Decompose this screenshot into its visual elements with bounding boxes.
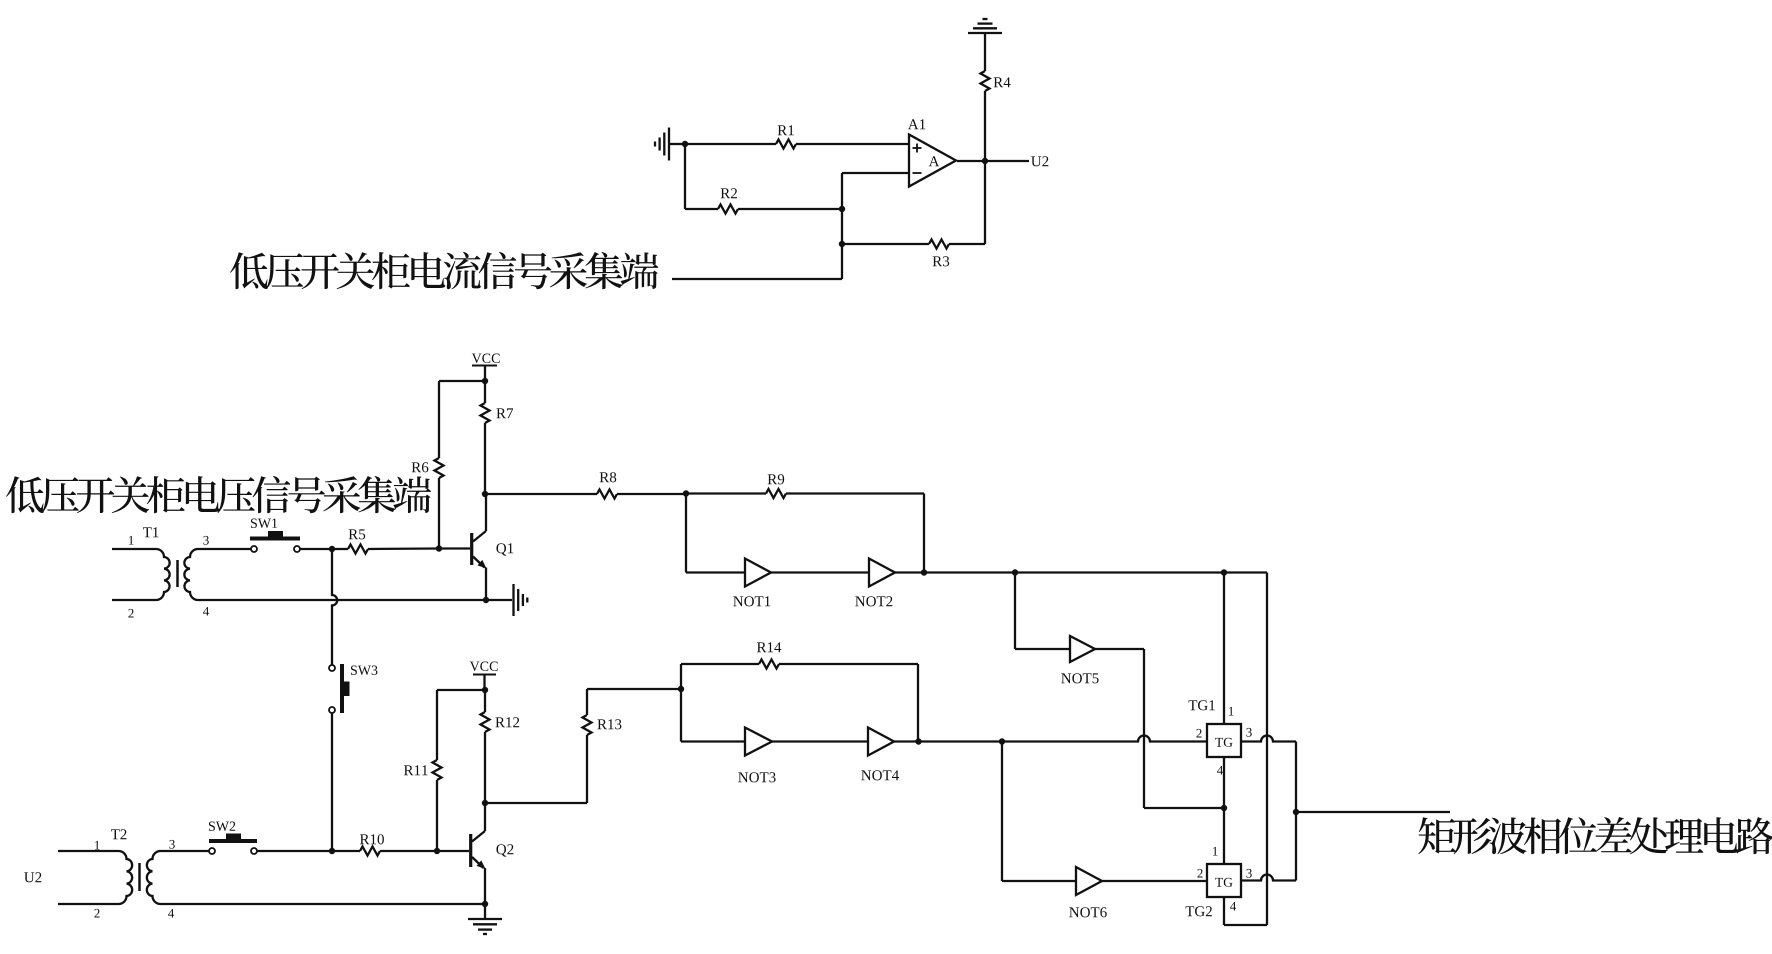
transistor Q1 collector: [485, 494, 487, 531]
label NOT5: [1061, 673, 1098, 683]
ground (Q1 emitter): [512, 584, 514, 616]
wire: [841, 209, 843, 244]
wire: [437, 850, 469, 852]
wire: [617, 493, 686, 495]
pin 1 label T2: [95, 841, 100, 850]
label R7: [496, 408, 513, 418]
wire: [586, 689, 588, 715]
switch SW1 contact: [251, 546, 257, 552]
wire (TG2 pin3, hops bus): [1241, 875, 1296, 881]
wire: [841, 244, 843, 279]
wire: [1295, 812, 1297, 881]
wire: [681, 663, 759, 665]
switch SW2 bar: [209, 839, 257, 843]
pin 1 label T1: [129, 536, 134, 545]
power VCC (Q1 stage): [472, 354, 500, 363]
node (NOT6 branch): [999, 738, 1005, 744]
node (NOT1 input net): [683, 490, 689, 496]
inverter NOT5: [1070, 636, 1095, 662]
resistor R7: [481, 403, 490, 423]
wire: [1002, 880, 1076, 882]
node (Q1 emitter/ground): [483, 597, 489, 603]
wire: [680, 664, 682, 689]
wire: [439, 547, 470, 549]
wire: [984, 91, 986, 161]
pin 1 label TG2: [1213, 847, 1218, 856]
transistor Q1 emitter arrow: [478, 560, 487, 569]
transmission gate TG2: [1207, 864, 1241, 897]
wire: [772, 740, 868, 742]
node (TG1 pin4/NOT5): [1221, 805, 1227, 811]
label NOT6: [1069, 907, 1107, 917]
resistor R12: [481, 712, 490, 732]
op-amp minus sign: [913, 172, 922, 174]
label U2 (T2 input): [24, 872, 41, 882]
switch SW2 contact: [251, 848, 257, 854]
wire (TG2 pin4): [1223, 897, 1225, 925]
wire: [1095, 648, 1144, 650]
wire: [331, 713, 333, 851]
wire: [436, 780, 438, 851]
wire: [300, 548, 332, 550]
label TG2: [1186, 906, 1212, 916]
label R5: [349, 529, 366, 539]
wire: [685, 494, 687, 573]
pin 4 label T2: [168, 909, 174, 918]
node (VCC rail split): [482, 378, 488, 384]
inverter NOT4: [868, 728, 894, 756]
wire: [484, 423, 486, 494]
transformer T2 core: [138, 863, 141, 891]
wire: [485, 493, 597, 495]
label NOT1: [733, 596, 770, 606]
transistor Q2 emitter arrow: [477, 860, 486, 869]
wire: [1102, 880, 1207, 882]
label R11: [404, 765, 428, 775]
node (Q2 collector): [482, 800, 488, 806]
wire: [484, 904, 486, 919]
switch SW1 contact: [294, 546, 300, 552]
VCC bar: [472, 364, 497, 366]
node (R5/R6/Q1 base junction): [436, 545, 442, 551]
label NOT2: [855, 596, 892, 606]
wire: [842, 243, 929, 245]
pin 2 label TG1: [1196, 729, 1201, 738]
wire: [332, 548, 348, 550]
label R1: [778, 125, 794, 135]
wire: [984, 33, 986, 71]
pin 3 label T1: [203, 536, 208, 545]
node (R2/inverting input junction): [839, 206, 845, 212]
transformer T1 core: [176, 560, 179, 587]
wire: [984, 161, 986, 244]
wire: [771, 571, 869, 573]
TG1 inner label: [1215, 738, 1232, 747]
transistor Q2: [472, 831, 485, 842]
node (NOT4 output/R14): [915, 738, 921, 744]
wire: [923, 494, 925, 573]
wire: [484, 690, 486, 712]
label A1: [908, 119, 925, 129]
label R12: [495, 717, 519, 727]
label 矩形波相位差处理电路: [1418, 817, 1772, 854]
wire: [895, 571, 1267, 573]
label R4: [994, 77, 1011, 87]
wire: [738, 208, 842, 210]
wire: [669, 143, 682, 145]
node (SW2/SW3/R10 junction): [329, 848, 335, 854]
wire: [796, 143, 909, 145]
transformer T2 primary: [58, 851, 132, 904]
wire (TG1 pin4): [1223, 757, 1225, 864]
node (Q2 emitter/ground): [482, 901, 488, 907]
label U2: [1031, 156, 1048, 166]
node (R3 junction): [839, 241, 845, 247]
TG2 inner label: [1215, 878, 1232, 887]
wire: [957, 160, 1029, 162]
label T2: [111, 829, 127, 839]
pin 4 label TG2: [1230, 902, 1236, 911]
wire: [486, 599, 512, 601]
wire: [368, 547, 439, 550]
wire: [842, 172, 909, 174]
label SW3: [351, 666, 378, 675]
wire: [841, 173, 843, 209]
wire: [439, 380, 485, 382]
wire (TG1 pin3, hops bus): [1241, 736, 1296, 742]
wire: [257, 850, 332, 852]
label R10: [360, 834, 384, 844]
label SW1: [251, 519, 277, 528]
wire: [680, 689, 682, 742]
resistor R4: [981, 71, 990, 91]
resistor R2: [718, 205, 738, 214]
node (NOT2 output/R9): [921, 569, 927, 575]
wire: [436, 690, 438, 760]
wire: [437, 689, 485, 691]
inverter NOT6: [1076, 867, 1102, 895]
pin 1 label TG1: [1229, 707, 1234, 716]
pin 2 label TG2: [1197, 869, 1202, 878]
label NOT3: [738, 772, 775, 782]
switch SW3 button: [344, 682, 350, 697]
wire: [686, 571, 745, 573]
resistor R10: [360, 847, 380, 856]
transformer T1 primary: [112, 549, 170, 600]
resistor R9: [766, 489, 786, 498]
wire (SW3 upper, hops over T1 wire): [332, 549, 337, 665]
transmission gate TG1: [1207, 724, 1241, 757]
wire: [484, 366, 486, 382]
label SW2: [209, 822, 235, 831]
node (Q1 collector): [482, 491, 488, 497]
pin 2 label T1: [128, 609, 133, 618]
wire: [779, 663, 918, 665]
transformer T2 secondary: [147, 851, 485, 904]
label R13: [597, 719, 621, 729]
pin 4 label TG1: [1217, 766, 1223, 775]
node (R10/R11/Q2 base junction): [434, 848, 440, 854]
op-amp plus sign: [913, 147, 922, 149]
wire: [1295, 742, 1297, 813]
wire: [1015, 648, 1070, 650]
pin 3 label TG2: [1246, 869, 1251, 878]
wire (TG1 pin1): [1223, 573, 1225, 725]
wire: [786, 492, 924, 494]
resistor R8: [597, 490, 617, 499]
node (VCC2 rail split): [482, 687, 488, 693]
switch SW3 bar: [340, 664, 344, 713]
inverter NOT2: [869, 559, 895, 587]
wire: [684, 144, 686, 209]
label R2: [721, 188, 737, 198]
label NOT4: [861, 770, 899, 780]
node (NOT5 branch): [1012, 569, 1018, 575]
wire: [484, 868, 486, 904]
label 低压开关柜电流信号采集端: [230, 252, 658, 289]
wire: [1144, 807, 1224, 809]
transistor Q2 collector: [484, 803, 486, 831]
op-amp A1: [909, 135, 956, 187]
wire: [685, 143, 776, 145]
VCC bar: [473, 673, 496, 675]
wire: [1014, 573, 1016, 650]
switch SW1 button: [268, 531, 283, 537]
pin 2 label T2: [94, 909, 99, 918]
pin 3 label T2: [169, 840, 174, 849]
ground (op-amp non-inverting input reference): [668, 128, 670, 161]
wire: [438, 478, 440, 549]
wire: [1224, 924, 1267, 926]
wire: [686, 492, 766, 494]
resistor R6: [435, 458, 444, 478]
wire (right bus down): [1266, 573, 1268, 926]
resistor R3: [929, 240, 949, 249]
resistor R13: [583, 715, 592, 735]
wire: [380, 850, 437, 852]
wire: [949, 243, 985, 245]
wire: [587, 688, 681, 690]
node (output U2): [982, 158, 988, 164]
inverter NOT3: [745, 728, 772, 756]
pin 4 label T1: [203, 607, 209, 616]
wire: [1001, 742, 1003, 882]
label R8: [600, 472, 617, 482]
label R6: [412, 462, 429, 472]
label R14: [757, 642, 781, 652]
wire: [1143, 649, 1145, 808]
node (TG1 pin1 branch): [1221, 569, 1227, 575]
power VCC (Q2 stage): [470, 662, 498, 671]
label R9: [768, 474, 785, 484]
node (SW1/R5/SW3 junction): [329, 546, 335, 552]
wire (NOT4 out to TG1 pin2, hops NOT5 line): [894, 736, 1207, 742]
label T1: [143, 527, 158, 537]
wire: [483, 675, 485, 691]
label 低压开关柜电压信号采集端: [6, 476, 431, 513]
wire: [586, 735, 588, 803]
transistor Q1: [473, 531, 486, 542]
label TG1: [1189, 700, 1215, 710]
ground (Q2 emitter): [468, 918, 502, 920]
wire: [484, 381, 486, 403]
wire: [332, 850, 360, 852]
switch SW3 contact: [329, 665, 335, 671]
wire (current signal input): [672, 278, 842, 280]
wire: [485, 568, 487, 601]
resistor R1: [776, 140, 796, 149]
resistor R14: [759, 660, 779, 669]
resistor R5: [348, 545, 368, 554]
switch SW2 button: [226, 834, 241, 840]
label R3: [933, 256, 950, 266]
wire: [484, 732, 486, 803]
wire: [438, 381, 440, 458]
op-amp letter A: [929, 156, 940, 166]
wire: [685, 208, 718, 210]
node (phase output junction): [1293, 809, 1299, 815]
wire: [485, 802, 587, 804]
wire (output): [1296, 811, 1450, 813]
label Q2: [496, 844, 513, 856]
ground (above R4): [968, 32, 1002, 34]
switch SW1 bar: [250, 537, 300, 541]
inverter NOT1: [745, 559, 771, 587]
pin 3 label TG1: [1246, 728, 1251, 737]
label Q1: [496, 543, 513, 555]
node (NOT3 input net): [678, 686, 684, 692]
node (R1/R2 input junction): [682, 141, 688, 147]
switch SW2 contact: [209, 848, 215, 854]
switch SW3 contact: [329, 707, 335, 713]
resistor R11: [433, 760, 442, 780]
wire: [681, 740, 745, 742]
transformer T1 secondary: [184, 549, 486, 600]
wire: [917, 664, 919, 742]
